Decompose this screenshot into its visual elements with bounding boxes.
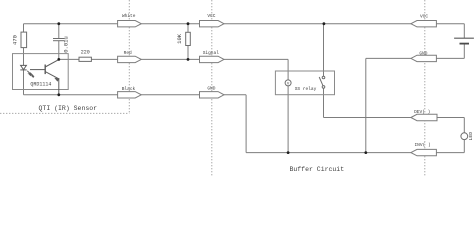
wire switch top xyxy=(323,24,325,76)
wire corner vertical xyxy=(245,95,247,153)
module border dashed (buffer right edge) xyxy=(424,0,426,177)
svg-text:Buffer Circuit: Buffer Circuit xyxy=(289,166,344,173)
svg-text:Red: Red xyxy=(124,50,132,56)
sensor box QRD1114 xyxy=(13,54,69,90)
wire top rail right xyxy=(224,23,411,25)
svg-text:GND: GND xyxy=(419,51,427,57)
relay switch xyxy=(319,76,325,88)
svg-text:VCC: VCC xyxy=(207,13,215,19)
resistor 220 xyxy=(79,57,91,61)
wire Black to GND xyxy=(141,94,199,96)
wire INV flag to LED column xyxy=(436,152,464,154)
wire GND flag to battery xyxy=(436,57,464,59)
LED emission arrows xyxy=(27,71,33,77)
wire collector node to R220 xyxy=(59,58,79,60)
capacitor 0.01u xyxy=(53,39,65,41)
svg-text:VCC: VCC xyxy=(420,14,428,20)
wire DEV row xyxy=(324,117,411,119)
junction node xyxy=(287,151,290,154)
wire ground rail left xyxy=(24,94,118,96)
wire top rail left xyxy=(24,23,118,25)
wire coil bottom xyxy=(287,86,289,153)
wire bottom rail xyxy=(246,152,411,154)
junction node xyxy=(323,22,326,25)
relay coil circle xyxy=(285,80,291,86)
flag Red xyxy=(118,56,142,62)
wire battery column top xyxy=(463,24,465,39)
junction node xyxy=(187,58,190,61)
svg-text:QTI (IR) Sensor: QTI (IR) Sensor xyxy=(39,105,98,112)
wire GND-mid to corner xyxy=(224,94,246,96)
module border dashed (QTI sensor bottom edge) xyxy=(0,112,129,114)
flag Signal mid xyxy=(200,56,225,62)
wire LED cathode to ground rail xyxy=(23,70,25,95)
wire DEV flag to LED column xyxy=(437,117,464,119)
flag DEV xyxy=(411,114,437,120)
svg-text:0.01u: 0.01u xyxy=(63,36,70,53)
flag VCC right xyxy=(411,21,437,27)
flag INV xyxy=(411,149,437,155)
svg-text:470: 470 xyxy=(12,35,19,45)
junction node xyxy=(364,151,367,154)
flag Black xyxy=(118,92,142,98)
IR LED of QRD1114 xyxy=(20,65,26,70)
svg-text:10K: 10K xyxy=(176,33,183,44)
battery xyxy=(454,38,474,43)
wire VCC flag to battery xyxy=(436,23,464,25)
flag White xyxy=(118,21,142,27)
wire 10K bottom xyxy=(187,46,189,60)
module border dashed (buffer left edge) xyxy=(211,0,213,177)
phototransistor QRD1114 xyxy=(30,59,59,94)
resistor 470 xyxy=(21,32,27,48)
wire GND drop vertical xyxy=(365,58,367,152)
svg-text:QRD1114: QRD1114 xyxy=(30,81,51,87)
svg-text:SS relay: SS relay xyxy=(295,86,317,92)
wire Red to Signal xyxy=(141,58,199,60)
wire left branch top xyxy=(23,24,25,32)
svg-text:INV( ): INV( ) xyxy=(414,142,430,148)
svg-text:White: White xyxy=(122,13,136,19)
wire top rail middle xyxy=(141,23,199,25)
wire collector vertical xyxy=(58,58,60,60)
wire R220 to Red flag xyxy=(91,58,117,60)
wire resistor to LED xyxy=(23,48,25,66)
wire Signal to relay coil xyxy=(224,58,288,60)
svg-text:Signal: Signal xyxy=(203,50,220,56)
wire 10K top xyxy=(187,24,189,33)
svg-text:GND: GND xyxy=(207,86,215,92)
svg-text:DEV( ): DEV( ) xyxy=(414,109,430,115)
junction node xyxy=(57,93,60,96)
wire cap top xyxy=(58,24,60,39)
wire battery column bottom xyxy=(463,44,465,59)
junction node xyxy=(57,58,60,61)
flag VCC mid xyxy=(200,21,225,27)
junction node xyxy=(187,22,190,25)
svg-text:220: 220 xyxy=(81,49,90,55)
relay box xyxy=(275,71,334,95)
wire LED column top xyxy=(463,118,465,133)
wire GND-right row xyxy=(366,57,411,59)
svg-text:LED: LED xyxy=(468,132,474,141)
flag GND mid xyxy=(200,92,225,98)
module border dashed (QTI sensor right edge) xyxy=(128,0,130,113)
svg-text:Black: Black xyxy=(122,86,136,92)
flag GND right xyxy=(411,55,437,61)
resistor 10K xyxy=(186,32,191,45)
wire coil top xyxy=(287,59,289,80)
wire switch bottom xyxy=(323,88,325,117)
junction node xyxy=(57,22,60,25)
wire LED column bottom xyxy=(463,140,465,153)
wire cap bottom to collector node xyxy=(58,41,60,60)
LED indicator xyxy=(461,133,468,140)
